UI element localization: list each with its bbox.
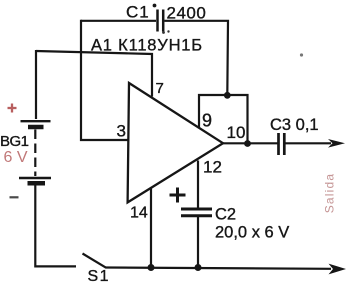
svg-text:S1: S1 (88, 268, 111, 283)
svg-text:C3 0,1: C3 0,1 (270, 116, 319, 134)
svg-text:A1 К118УН1Б: A1 К118УН1Б (91, 37, 203, 55)
svg-text:20,0 x 6 V: 20,0 x 6 V (215, 224, 289, 242)
svg-text:10: 10 (227, 123, 246, 142)
svg-text:7: 7 (156, 80, 164, 97)
svg-text:2400: 2400 (167, 4, 207, 23)
svg-text:14: 14 (130, 205, 148, 222)
svg-text:6 V: 6 V (4, 149, 28, 166)
svg-text:BG1: BG1 (0, 133, 29, 150)
svg-text:9: 9 (202, 111, 212, 131)
svg-text:3: 3 (117, 122, 126, 141)
svg-text:C2: C2 (215, 206, 236, 224)
svg-text:C1: C1 (126, 3, 150, 22)
svg-text:12: 12 (203, 158, 222, 177)
svg-text:Salida: Salida (323, 173, 337, 214)
